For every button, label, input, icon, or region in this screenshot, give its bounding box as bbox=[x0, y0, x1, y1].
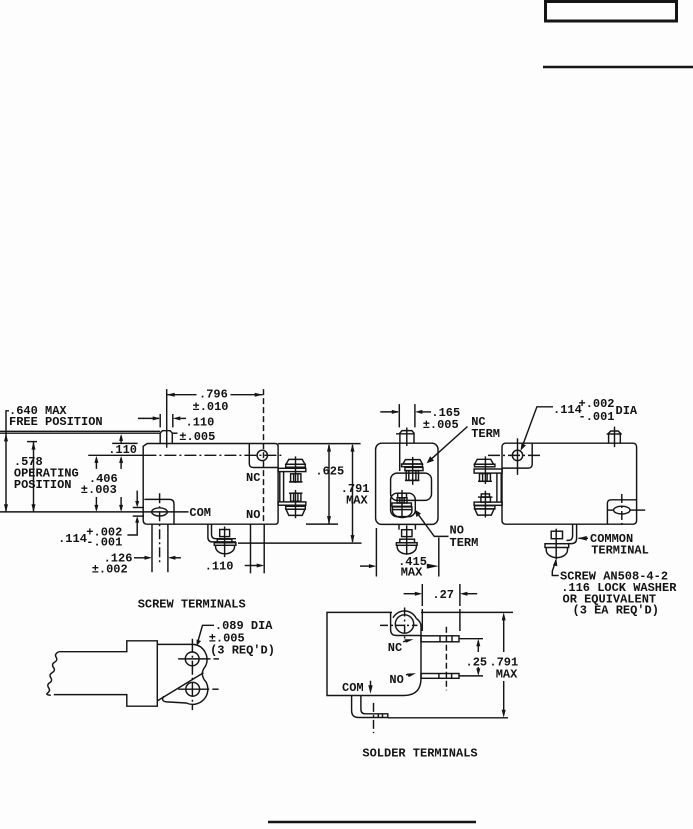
solder view boss outline bbox=[391, 612, 421, 635]
svg-text:.110: .110 bbox=[108, 443, 137, 457]
svg-text:(3 REQ'D): (3 REQ'D) bbox=[210, 644, 275, 658]
plunger centerline / .796 left extension bbox=[166, 389, 168, 448]
NO screw terminal view 1 bbox=[278, 490, 306, 518]
COM terminal plate view 1 bbox=[144, 499, 174, 524]
svg-text:TERM: TERM bbox=[471, 427, 500, 441]
svg-text:MAX: MAX bbox=[346, 494, 368, 508]
label NC TERM bbox=[427, 415, 500, 463]
lever arm detail bbox=[47, 641, 158, 706]
COM solder lug bbox=[352, 696, 388, 718]
COM oval slot view 3 bbox=[614, 506, 630, 514]
svg-text:FREE POSITION: FREE POSITION bbox=[9, 415, 103, 429]
svg-text:-.001: -.001 bbox=[579, 410, 615, 424]
dimension .110 bottom bbox=[205, 524, 265, 573]
terminal block lower view 2 bbox=[391, 493, 416, 516]
title block box top right bbox=[546, 2, 677, 22]
dimension .25 bbox=[459, 639, 487, 676]
svg-text:SCREW TERMINALS: SCREW TERMINALS bbox=[138, 598, 246, 612]
label NO TERM bbox=[415, 510, 479, 551]
svg-text:NC: NC bbox=[388, 641, 402, 655]
solder view boss circle outer bbox=[393, 611, 416, 619]
clevis hole lower bbox=[186, 682, 200, 696]
switch body side view 3 bbox=[502, 443, 637, 524]
hole centerlines view 3 bbox=[488, 438, 543, 475]
solder view body bbox=[327, 612, 421, 695]
svg-text:MAX: MAX bbox=[401, 565, 423, 579]
svg-text:SOLDER TERMINALS: SOLDER TERMINALS bbox=[362, 747, 477, 761]
dimension .114 +.002 -.001 slot bbox=[58, 491, 144, 550]
dimension .126 ±.002 bbox=[92, 524, 181, 576]
terminal block side walls view 3 bbox=[497, 473, 501, 502]
mounting ear internal corner view 1 bbox=[249, 444, 278, 468]
svg-text:.27: .27 bbox=[432, 588, 454, 602]
svg-text:.625: .625 bbox=[315, 465, 344, 479]
COM oval slot view 1 bbox=[152, 508, 168, 516]
svg-text:±.003: ±.003 bbox=[81, 483, 117, 497]
svg-text:NO: NO bbox=[246, 508, 260, 522]
svg-text:MAX: MAX bbox=[496, 668, 518, 682]
plunger centerline view 2 bbox=[406, 428, 408, 447]
svg-text:TERMINAL: TERMINAL bbox=[591, 543, 649, 557]
COMMON bottom screw view 3 bbox=[545, 529, 569, 560]
hole centerline horizontal view 1 bbox=[88, 454, 284, 456]
NO solder tab bbox=[421, 674, 459, 679]
svg-text:DIA: DIA bbox=[616, 404, 638, 418]
svg-text:.110: .110 bbox=[186, 416, 215, 430]
label NO solder bbox=[389, 673, 416, 687]
mounting hole view 1 bbox=[257, 450, 267, 460]
NO screw terminal view 3 bbox=[474, 491, 502, 518]
NO screw head-on view 2 bbox=[392, 490, 412, 518]
dimension .406 ±.003 bbox=[81, 472, 123, 512]
lever arm view 1 bbox=[0, 431, 178, 433]
terminal block upper view 2 bbox=[391, 473, 432, 500]
svg-text:.110: .110 bbox=[205, 560, 234, 574]
svg-text:±.002: ±.002 bbox=[92, 562, 128, 576]
clevis centerlines bbox=[178, 639, 219, 710]
switch body end view 2 bbox=[376, 443, 438, 524]
svg-text:POSITION: POSITION bbox=[14, 478, 72, 492]
svg-text:NO: NO bbox=[389, 673, 403, 687]
svg-text:(3 EA REQ'D): (3 EA REQ'D) bbox=[573, 604, 659, 618]
label NO view 1 bbox=[246, 508, 260, 522]
hole centerline extension arrows (.110 internal) bbox=[94, 434, 137, 469]
switch body side view 1 bbox=[143, 444, 278, 525]
plunger bore line view 2 bbox=[399, 443, 401, 471]
label .089 DIA leader bbox=[197, 619, 275, 657]
leader screw note view 3 bbox=[552, 559, 558, 575]
dimension .415 MAX bbox=[360, 528, 439, 579]
caption SOLDER TERMINALS bbox=[362, 747, 477, 761]
svg-text:±.005: ±.005 bbox=[423, 418, 459, 432]
dimension .796 ±.010 bbox=[167, 388, 263, 415]
NC screw head-on view 2 bbox=[402, 457, 423, 485]
label .578 OPERATING POSITION bbox=[14, 455, 79, 492]
COM bottom screw bracket view 1 bbox=[208, 524, 236, 542]
label .640 MAX FREE POSITION bbox=[9, 404, 103, 429]
dimension .110 ±.005 top bbox=[138, 414, 215, 444]
svg-text:COM: COM bbox=[189, 506, 211, 520]
solder tabs centerline dashed bbox=[445, 627, 447, 691]
plunger view 2 bbox=[396, 431, 415, 444]
NC solder tab bbox=[421, 636, 459, 642]
COM oval centerline horizontal bbox=[0, 511, 189, 513]
plunger view 1 bbox=[160, 431, 172, 444]
NC screw terminal view 3 bbox=[474, 456, 502, 484]
terminal block side walls view 1 bbox=[280, 472, 284, 502]
label .114 +.002 -.001 DIA bbox=[521, 397, 638, 451]
svg-text:±.005: ±.005 bbox=[179, 430, 215, 444]
svg-text:.25: .25 bbox=[466, 655, 488, 669]
svg-text:NC: NC bbox=[246, 471, 260, 485]
svg-text:±.010: ±.010 bbox=[193, 400, 229, 414]
label COM view 1 bbox=[189, 506, 211, 520]
NC screw terminal view 1 bbox=[278, 456, 306, 483]
body top edge extension stub left bbox=[112, 442, 137, 444]
lever clevis end plate bbox=[157, 644, 208, 704]
caption SCREW TERMINALS bbox=[138, 598, 246, 612]
label COMMON TERMINAL bbox=[578, 532, 649, 558]
note SCREW AN508-4-2 bbox=[560, 570, 677, 618]
solder view hole inner bbox=[395, 615, 413, 633]
mounting hole view 3 bbox=[512, 450, 522, 460]
footer rule line bbox=[268, 821, 476, 823]
COM bottom screw view 1 bbox=[214, 527, 236, 558]
header rule line bbox=[543, 66, 693, 69]
svg-text:.114: .114 bbox=[58, 532, 87, 546]
svg-text:COM: COM bbox=[342, 681, 364, 695]
dimension .640 vertical line bbox=[4, 411, 9, 513]
svg-text:.114: .114 bbox=[553, 403, 582, 417]
svg-text:TERM: TERM bbox=[450, 536, 479, 550]
bottom screw view 2 bbox=[396, 524, 417, 554]
dimension .625 bbox=[278, 444, 361, 524]
.796 right extension dashed bbox=[263, 389, 265, 523]
dimension .791 MAX view 1 bbox=[238, 444, 370, 543]
label COM solder bbox=[342, 681, 373, 696]
clevis hole upper bbox=[185, 652, 199, 666]
COM oval centerlines view 3 bbox=[607, 494, 645, 528]
COM terminal plate view 3 bbox=[607, 500, 636, 524]
plunger view 3 bbox=[607, 427, 622, 448]
dimension .165 ±.005 bbox=[380, 404, 460, 432]
COM oval centerline vertical bbox=[159, 493, 161, 565]
COMMON bottom screw bracket view 3 bbox=[567, 524, 577, 543]
dimension .578 vertical line bbox=[27, 442, 37, 513]
solder view circle centerlines bbox=[380, 608, 418, 641]
dimension .791 MAX solder bbox=[388, 612, 518, 717]
clevis fold diagonal bbox=[158, 673, 204, 701]
mounting ear internal corner view 3 bbox=[502, 443, 532, 468]
COM lug centerline bbox=[373, 703, 375, 733]
label NC solder bbox=[388, 639, 414, 655]
label NC view 1 bbox=[246, 471, 260, 485]
dimension .27 bbox=[404, 584, 478, 634]
svg-text:-.001: -.001 bbox=[86, 535, 122, 549]
